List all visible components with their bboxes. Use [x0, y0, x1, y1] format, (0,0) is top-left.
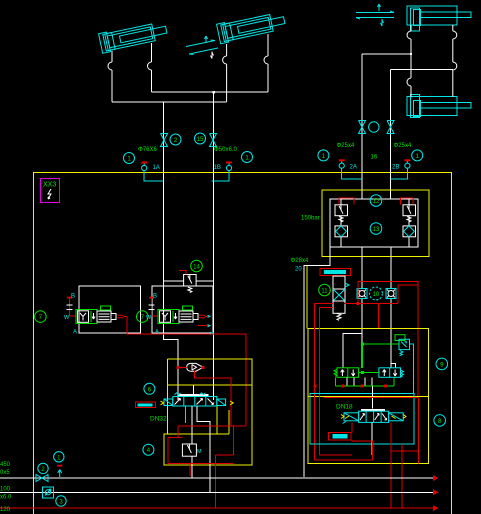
tilted hydraulic cylinder (right): [217, 10, 287, 43]
junction dot at H1/drop2: [212, 91, 215, 94]
proportional valve DN18 (4/3): [341, 411, 406, 423]
yellow enclosure frame: [34, 173, 452, 514]
svg-text:15: 15: [197, 137, 204, 143]
green link between valves: [359, 372, 379, 374]
svg-text:Φ25x4: Φ25x4: [394, 143, 412, 149]
port B wire: [152, 299, 159, 317]
svg-text:13: 13: [373, 227, 380, 233]
balloon 4: [143, 444, 154, 455]
svg-text:2A: 2A: [350, 165, 357, 171]
svg-text:14: 14: [193, 265, 200, 271]
yellow box center (check valve + item 4 compartments): [164, 359, 252, 465]
test coupling 1B: [226, 162, 232, 171]
white feed to valve R (jog from riser B): [391, 363, 396, 368]
svg-text:W: W: [64, 315, 70, 321]
white feed to green valve L (jog from riser A): [343, 333, 362, 368]
balloon 9: [436, 358, 448, 370]
red pilot stub of 14: [179, 271, 186, 275]
port line P down: [191, 406, 193, 478]
pressure gauge circle: [369, 122, 379, 132]
svg-text:150bar: 150bar: [301, 216, 320, 222]
svg-text:1: 1: [127, 156, 131, 163]
hose leg: rod-side shared: [453, 25, 457, 97]
red manifold link: [178, 426, 246, 438]
relief valve 14: [184, 275, 197, 293]
solenoid indicator (item 11 LED): [320, 268, 351, 275]
yellow box around items 12/13: [322, 190, 429, 257]
cyan stub below valve: [184, 406, 186, 423]
manifold outline left assembly 2: [152, 286, 213, 333]
balloon 15: [195, 133, 206, 144]
motion annotation (top right): [356, 4, 394, 26]
wire: riser B below box: [390, 247, 392, 368]
svg-text:Φ50x6.0: Φ50x6.0: [214, 147, 237, 153]
main cartridge (green): [76, 310, 97, 324]
svg-text:DN18: DN18: [336, 404, 353, 411]
solenoid indicator (DN32 LED): [135, 402, 155, 407]
wire: right drop line A (x=362): [361, 54, 363, 199]
2/2 valve left (green): [334, 368, 359, 378]
svg-text:M: M: [197, 449, 202, 455]
yellow connectors: [217, 405, 229, 434]
junction: [410, 53, 412, 55]
svg-text:DN32: DN32: [150, 416, 167, 423]
port line T down (jog): [197, 406, 210, 492]
svg-text:A: A: [73, 330, 77, 336]
filter on supply line 2: [43, 487, 54, 498]
port B wire: [70, 299, 77, 317]
white T feed to DN32 valve: [193, 385, 195, 395]
red branch down into block: [377, 304, 379, 330]
yellow division: [167, 384, 252, 386]
lightning bolt symbol: [48, 189, 51, 199]
motion annotation (between cylinders): [186, 36, 218, 59]
svg-text:2B: 2B: [392, 165, 399, 171]
coupling stub wire 2A: [342, 168, 362, 179]
wire: drop line 2 (x=213): [213, 92, 215, 400]
svg-text:W: W: [146, 315, 152, 321]
white T feed to DN18 valve: [371, 386, 373, 409]
check valve 13-left: [335, 226, 348, 237]
red pilot wiring upper: [358, 281, 418, 397]
red bus vertical pair: [315, 308, 320, 461]
red wiring item 4: [168, 438, 233, 477]
red junction dots on collector: [342, 385, 345, 388]
green pilot line to valve 5: [363, 343, 399, 345]
yellow connector to lower block: [306, 266, 308, 329]
coupling stub wire 2B: [391, 168, 408, 179]
check valve 13-right: [403, 226, 416, 237]
pilot section: [179, 311, 193, 322]
pilot section: [97, 311, 111, 322]
red bus bottom links: [315, 455, 373, 460]
balloon 11: [319, 284, 331, 296]
coupling stub wire left: [144, 171, 164, 182]
cyan drain from valve 5: [410, 344, 414, 394]
red pilot loop left: [339, 198, 354, 204]
balloon 2 (bottom): [38, 463, 48, 473]
shutoff valve on line 1: [161, 134, 168, 147]
wire: cap-end header: [112, 101, 227, 103]
white tank stub below DN18: [371, 422, 373, 455]
balloon 8: [434, 415, 446, 427]
cyan box around DN18 valve: [310, 394, 414, 444]
svg-text:1: 1: [245, 155, 249, 162]
svg-text:A: A: [155, 330, 159, 336]
relief valve 12-right: [403, 205, 416, 222]
gauge port symbol: [57, 465, 62, 477]
test coupling 2B: [404, 159, 410, 168]
vent symbol: [117, 315, 123, 318]
port stubs below valves: [347, 377, 372, 386]
red stub from assembly 2 port: [205, 315, 210, 317]
orifice block left (on riser A): [357, 289, 367, 299]
balloon 13: [370, 223, 382, 235]
supply line 2 (white): [0, 491, 433, 493]
svg-text:Φ28x4: Φ28x4: [291, 258, 309, 264]
svg-text:XX3: XX3: [43, 182, 56, 189]
main cartridge (green): [158, 310, 179, 324]
test coupling 1A: [141, 162, 147, 171]
hose leg: top cyl continues to bottom cyl: [407, 54, 411, 97]
shutoff valve on line 2: [210, 134, 217, 147]
pressure reducing valve 5 (green/cyan): [395, 335, 410, 356]
red links valve11 to bus pair: [315, 304, 334, 311]
svg-text:x6.0: x6.0: [0, 495, 12, 501]
balloon 1 (right section right): [412, 150, 423, 161]
red wiring below DN18: [351, 422, 353, 432]
svg-text:20: 20: [295, 267, 302, 273]
balloon 7 (second): [137, 311, 149, 323]
svg-text:1: 1: [415, 153, 419, 160]
svg-text:0x5: 0x5: [0, 470, 10, 476]
pilot valve 11 (vertical stack): [333, 276, 349, 320]
hose legs of right cylinder: [223, 34, 268, 102]
balloon 12: [370, 195, 382, 207]
horizontal hydraulic cylinder (top right): [407, 6, 471, 31]
svg-text:10: 10: [373, 292, 380, 298]
svg-text:Φ25x4: Φ25x4: [337, 143, 355, 149]
svg-text:11: 11: [321, 289, 328, 295]
svg-text:2: 2: [174, 137, 178, 144]
wire: cross link at y=281: [164, 280, 213, 282]
arrowhead line 2: [433, 489, 439, 495]
relief valve 12-left: [335, 205, 348, 222]
pilot operated check valve (oval): [187, 363, 203, 371]
balloon 2: [170, 134, 181, 145]
yellow division line: [308, 396, 429, 398]
balloon 6: [144, 383, 155, 394]
red stub into oval inlet: [178, 366, 187, 368]
balloon 1 (right section left): [318, 150, 329, 161]
solenoid indicator (DN18 LED): [329, 432, 351, 440]
shutoff valve right A: [359, 121, 366, 134]
balloon 1 (right of pair): [242, 152, 253, 163]
green riser: [362, 344, 364, 368]
red drop lines to tank header: [390, 422, 392, 508]
svg-text:1A: 1A: [153, 165, 160, 171]
manifold outline (items 12/13): [330, 199, 418, 247]
red junction dot: [356, 302, 359, 305]
balloon 3 (bottom): [56, 496, 66, 506]
valve 4 (pilot relief): [182, 444, 202, 456]
green junction dots: [361, 343, 364, 346]
svg-text:120: 120: [0, 507, 11, 513]
manifold outline left assembly 1: [79, 286, 141, 333]
svg-text:12: 12: [373, 199, 380, 205]
svg-text:1B: 1B: [214, 165, 221, 171]
arrowhead line 1: [433, 475, 439, 481]
wire: rod-end header: [152, 91, 269, 93]
balloon 7 (first): [35, 311, 47, 323]
svg-text:B: B: [71, 294, 75, 300]
balloon 10: [369, 287, 382, 300]
svg-text:1: 1: [322, 153, 326, 160]
tilted hydraulic cylinder (left): [99, 20, 169, 53]
internal riser right: [408, 199, 410, 247]
wire: drop line 1 (x=164): [164, 102, 178, 400]
test coupling 2A: [339, 159, 345, 168]
hose leg: top cyl cap end: [407, 25, 411, 54]
proportional valve DN32 (4/3): [161, 393, 234, 406]
horizontal hydraulic cylinder (bottom right): [407, 95, 471, 118]
shutoff valve on supply line 1: [36, 475, 48, 482]
coupling stub wire right: [212, 171, 229, 182]
wire header y=69.5: [391, 69, 453, 71]
vent symbol: [199, 315, 205, 318]
orifice block right (on riser B): [386, 289, 396, 299]
balloon 14: [191, 260, 203, 272]
2/2 valve right (cyan): [379, 368, 404, 378]
wire: P drop with jog: [304, 247, 330, 477]
counterbalance valve assembly 1: [64, 294, 123, 336]
svg-text:16: 16: [371, 155, 378, 161]
svg-text:Φ76X6: Φ76X6: [138, 147, 157, 153]
hose legs of left cylinder: [108, 43, 152, 102]
svg-text:B: B: [153, 294, 157, 300]
red link down to tank: [216, 426, 234, 508]
red line from assembly 1 to manifold: [123, 316, 246, 426]
shutoff valve right B: [387, 121, 394, 134]
wire header y=54: [362, 53, 411, 55]
wire: right drop line B (x=389.5): [390, 70, 392, 200]
red line from oval outlet down to manifold: [194, 371, 231, 426]
svg-text:450: 450: [0, 462, 11, 468]
supply line 1 (white): [0, 477, 433, 479]
yellow outer box lower-right block: [308, 329, 429, 464]
electric junction box X3 (magenta): [41, 179, 60, 203]
cyan tick at bus crossing: [210, 332, 213, 335]
return line (red): [0, 507, 433, 509]
wire: riser A below box: [361, 247, 363, 368]
red pilot loop right: [401, 198, 413, 204]
red junction dots at oval: [177, 366, 180, 369]
arrowhead return: [433, 505, 439, 511]
red stub lower from assembly 2: [198, 325, 210, 327]
balloon 1 (bottom): [54, 452, 64, 462]
counterbalance valve assembly 2: [146, 294, 205, 336]
svg-text:100: 100: [0, 487, 11, 493]
internal riser left: [340, 199, 342, 247]
red link valve11 to riser: [345, 285, 419, 304]
green collector line: [336, 377, 394, 386]
balloon 1 (left): [124, 153, 135, 164]
